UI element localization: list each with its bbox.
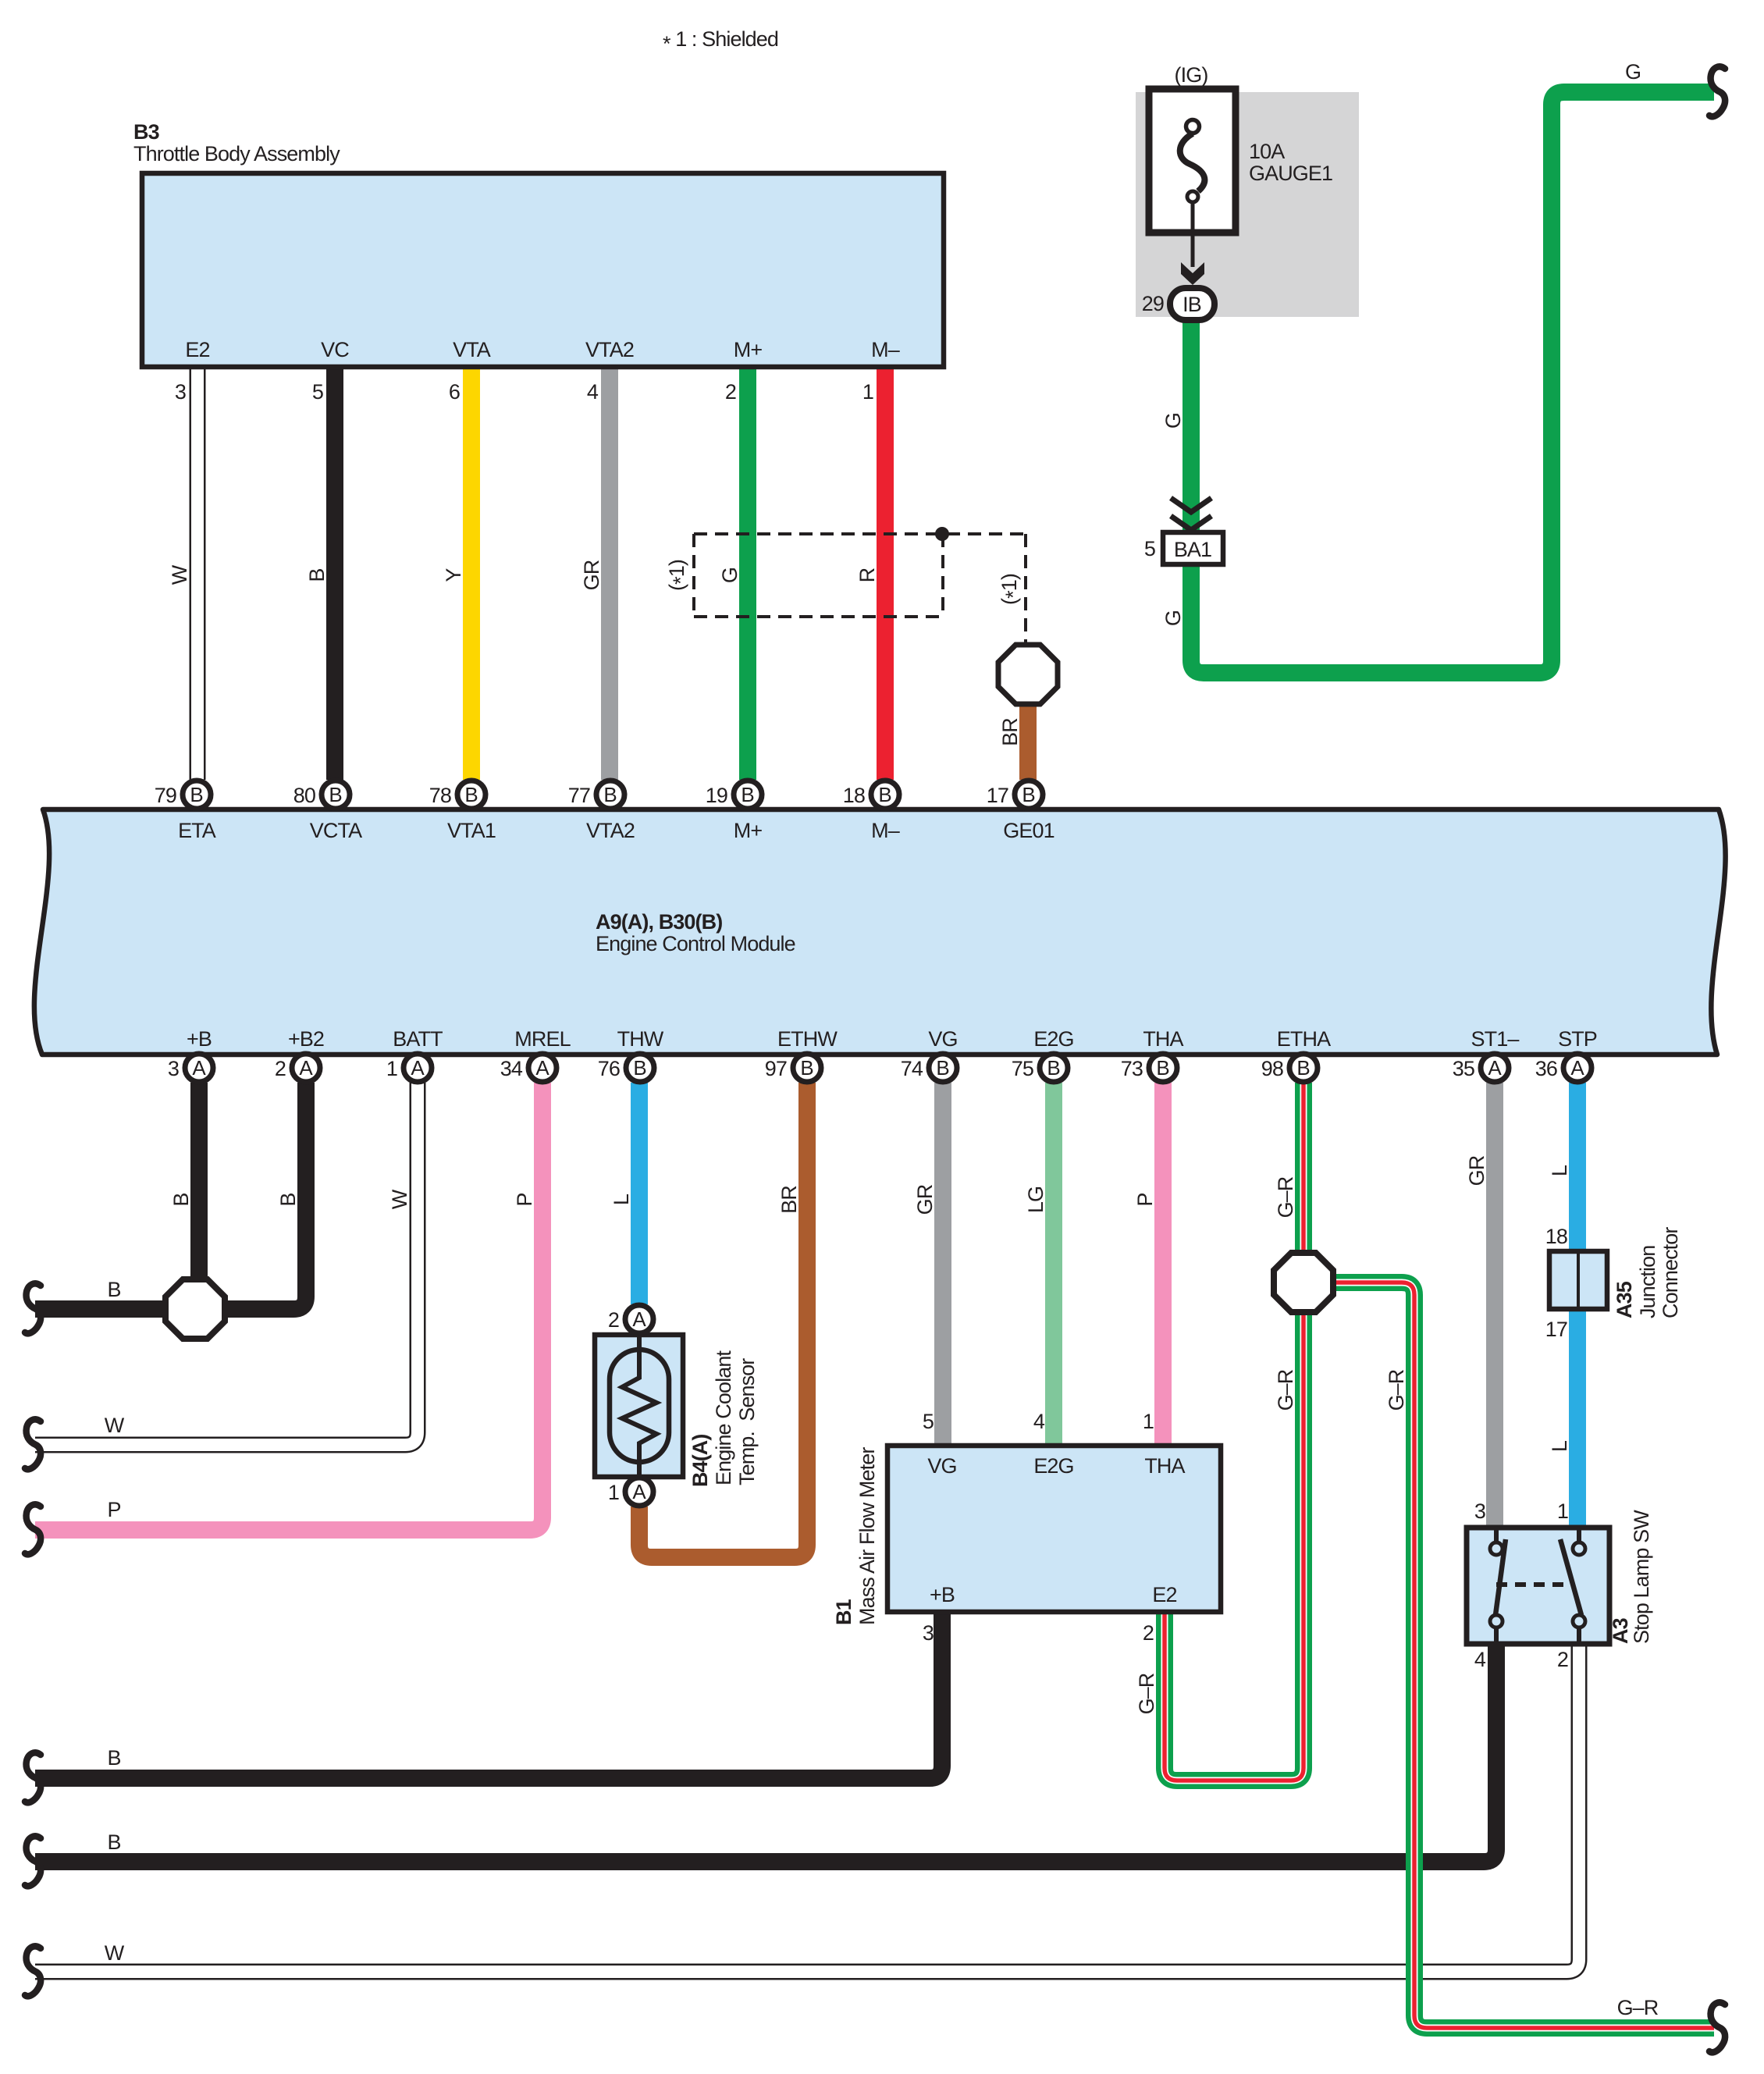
- svg-text:E2: E2: [1152, 1583, 1176, 1606]
- svg-text:A: A: [535, 1056, 549, 1080]
- svg-text:29: 29: [1142, 292, 1164, 315]
- svg-text:ETA: ETA: [178, 819, 216, 842]
- svg-text:G: G: [718, 567, 742, 583]
- svg-text:R: R: [855, 567, 879, 582]
- svg-text:+B: +B: [930, 1583, 955, 1606]
- svg-text:Engine Coolant: Engine Coolant: [712, 1350, 735, 1485]
- svg-text:B: B: [603, 783, 617, 806]
- svg-text:17: 17: [987, 784, 1008, 807]
- svg-text:ETHA: ETHA: [1277, 1027, 1331, 1051]
- svg-text:BR: BR: [777, 1186, 801, 1214]
- svg-text:80: 80: [293, 784, 315, 807]
- svg-text:+B2: +B2: [288, 1027, 324, 1051]
- svg-text:THA: THA: [1143, 1027, 1183, 1051]
- svg-text:(*1): (*1): [998, 574, 1025, 605]
- svg-text:E2: E2: [185, 338, 209, 361]
- svg-text:4: 4: [587, 380, 599, 404]
- svg-text:35: 35: [1453, 1057, 1474, 1080]
- svg-text:4: 4: [1033, 1410, 1045, 1433]
- svg-text:B: B: [800, 1056, 813, 1080]
- svg-text:B: B: [1296, 1056, 1310, 1080]
- svg-text:L: L: [1548, 1440, 1571, 1452]
- svg-text:STP: STP: [1558, 1027, 1597, 1051]
- svg-text:A9(A), B30(B): A9(A), B30(B): [596, 910, 722, 934]
- svg-text:Junction: Junction: [1636, 1246, 1659, 1318]
- svg-text:VTA: VTA: [453, 338, 491, 361]
- svg-text:ST1–: ST1–: [1471, 1027, 1520, 1051]
- svg-text:ETHW: ETHW: [777, 1027, 838, 1051]
- svg-text:5: 5: [1144, 537, 1155, 560]
- svg-text:B: B: [1156, 1056, 1169, 1080]
- svg-text:17: 17: [1545, 1318, 1567, 1341]
- svg-text:B: B: [878, 783, 891, 806]
- svg-text:W: W: [168, 564, 191, 585]
- svg-text:3: 3: [923, 1621, 934, 1645]
- svg-text:G–R: G–R: [1274, 1176, 1297, 1218]
- svg-text:BATT: BATT: [393, 1027, 443, 1051]
- svg-text:(IG): (IG): [1175, 63, 1208, 87]
- svg-text:18: 18: [843, 784, 865, 807]
- svg-text:E2G: E2G: [1033, 1027, 1073, 1051]
- svg-text:2: 2: [1143, 1621, 1154, 1645]
- svg-text:B: B: [107, 1278, 120, 1301]
- svg-text:A: A: [1488, 1056, 1502, 1080]
- svg-text:74: 74: [901, 1057, 923, 1080]
- svg-text:1: 1: [608, 1481, 619, 1504]
- svg-text:78: 78: [429, 784, 451, 807]
- svg-text:VTA2: VTA2: [585, 338, 634, 361]
- svg-text:G–R: G–R: [1617, 1996, 1659, 2019]
- svg-text:B1: B1: [832, 1599, 855, 1625]
- svg-text:B: B: [329, 783, 342, 806]
- svg-text:VG: VG: [927, 1454, 956, 1478]
- svg-text:A3: A3: [1609, 1617, 1632, 1644]
- svg-text:5: 5: [312, 380, 323, 404]
- svg-text:1: 1: [1557, 1499, 1568, 1523]
- svg-text:GE01: GE01: [1003, 819, 1054, 842]
- svg-text:L: L: [1548, 1165, 1571, 1176]
- svg-text:98: 98: [1261, 1057, 1283, 1080]
- svg-text:B: B: [633, 1056, 646, 1080]
- svg-text:3: 3: [1474, 1499, 1485, 1523]
- svg-text:B: B: [936, 1056, 949, 1080]
- svg-text:A: A: [632, 1307, 646, 1331]
- svg-text:GR: GR: [1465, 1155, 1488, 1186]
- svg-text:A35: A35: [1613, 1281, 1636, 1318]
- svg-text:10A: 10A: [1249, 140, 1285, 163]
- svg-text:VTA1: VTA1: [447, 819, 496, 842]
- svg-text:LG: LG: [1024, 1186, 1047, 1213]
- svg-text:2: 2: [608, 1308, 619, 1332]
- svg-text:B: B: [169, 1193, 193, 1206]
- svg-text:W: W: [388, 1189, 411, 1209]
- svg-text:76: 76: [598, 1057, 620, 1080]
- svg-text:36: 36: [1535, 1057, 1557, 1080]
- svg-text:75: 75: [1012, 1057, 1033, 1080]
- svg-text:2: 2: [275, 1057, 286, 1080]
- svg-text:Throttle Body Assembly: Throttle Body Assembly: [133, 142, 340, 165]
- svg-text:G–R: G–R: [1135, 1673, 1158, 1714]
- svg-text:B: B: [1022, 783, 1035, 806]
- svg-text:6: 6: [449, 380, 460, 404]
- svg-text:M+: M+: [734, 819, 763, 842]
- svg-text:M+: M+: [734, 338, 763, 361]
- svg-text:73: 73: [1121, 1057, 1143, 1080]
- svg-text:GAUGE1: GAUGE1: [1249, 162, 1332, 185]
- svg-text:VCTA: VCTA: [310, 819, 362, 842]
- svg-text:E2G: E2G: [1033, 1454, 1073, 1478]
- svg-text:B: B: [741, 783, 754, 806]
- svg-text:(*1): (*1): [665, 560, 692, 591]
- svg-text:1: 1: [386, 1057, 397, 1080]
- svg-text:GR: GR: [580, 560, 603, 590]
- svg-text:2: 2: [725, 380, 736, 404]
- svg-text:B: B: [190, 783, 203, 806]
- svg-text:A: A: [192, 1056, 206, 1080]
- svg-text:+B: +B: [187, 1027, 212, 1051]
- svg-text:97: 97: [765, 1057, 787, 1080]
- svg-text:B: B: [107, 1830, 120, 1854]
- svg-text:19: 19: [706, 784, 727, 807]
- svg-text:Engine Control Module: Engine Control Module: [596, 932, 795, 955]
- svg-text:A: A: [299, 1056, 313, 1080]
- svg-text:Temp. Sensor: Temp. Sensor: [735, 1358, 759, 1485]
- svg-text:VTA2: VTA2: [586, 819, 635, 842]
- svg-text:77: 77: [568, 784, 590, 807]
- svg-text:3: 3: [175, 380, 186, 404]
- svg-text:3: 3: [168, 1057, 179, 1080]
- svg-text:L: L: [610, 1194, 633, 1205]
- svg-text:B: B: [305, 568, 329, 582]
- svg-text:GR: GR: [913, 1184, 937, 1215]
- svg-text:THA: THA: [1144, 1454, 1185, 1478]
- svg-text:1: 1: [1143, 1410, 1154, 1433]
- svg-text:G: G: [1625, 60, 1641, 84]
- svg-text:Connector: Connector: [1659, 1227, 1682, 1318]
- svg-text:VG: VG: [928, 1027, 957, 1051]
- svg-text:1: 1: [862, 380, 873, 404]
- svg-text:M–: M–: [871, 338, 900, 361]
- svg-text:5: 5: [923, 1410, 934, 1433]
- svg-text:B: B: [464, 783, 478, 806]
- svg-text:M–: M–: [871, 819, 900, 842]
- svg-text:Mass Air Flow Meter: Mass Air Flow Meter: [855, 1447, 879, 1625]
- svg-text:A: A: [1570, 1056, 1584, 1080]
- svg-text:P: P: [513, 1193, 536, 1206]
- svg-text:W: W: [105, 1414, 125, 1437]
- svg-text:G: G: [1161, 413, 1185, 429]
- svg-text:W: W: [105, 1941, 125, 1965]
- svg-text:G–R: G–R: [1274, 1369, 1297, 1411]
- svg-text:B: B: [107, 1746, 120, 1770]
- svg-text:Y: Y: [442, 568, 465, 582]
- svg-text:G–R: G–R: [1385, 1369, 1408, 1411]
- svg-text:P: P: [107, 1498, 120, 1521]
- svg-text:MREL: MREL: [514, 1027, 571, 1051]
- svg-text:4: 4: [1474, 1648, 1486, 1671]
- svg-text:B3: B3: [133, 120, 160, 144]
- svg-text:G: G: [1161, 610, 1185, 626]
- svg-text:VC: VC: [321, 338, 349, 361]
- svg-text:2: 2: [1557, 1648, 1568, 1671]
- svg-text:79: 79: [155, 784, 176, 807]
- svg-text:B: B: [276, 1193, 300, 1206]
- svg-text:B: B: [1047, 1056, 1060, 1080]
- svg-text:A: A: [411, 1056, 425, 1080]
- svg-text:P: P: [1133, 1193, 1157, 1206]
- svg-text:IB: IB: [1183, 293, 1201, 316]
- svg-text:34: 34: [500, 1057, 523, 1080]
- svg-text:BR: BR: [998, 718, 1022, 746]
- svg-text:A: A: [632, 1480, 646, 1503]
- svg-text:18: 18: [1545, 1225, 1567, 1248]
- svg-text:B4(A): B4(A): [688, 1435, 712, 1488]
- svg-text:BA1: BA1: [1174, 538, 1211, 561]
- svg-text:Stop Lamp SW: Stop Lamp SW: [1630, 1510, 1653, 1644]
- svg-text:THW: THW: [617, 1027, 664, 1051]
